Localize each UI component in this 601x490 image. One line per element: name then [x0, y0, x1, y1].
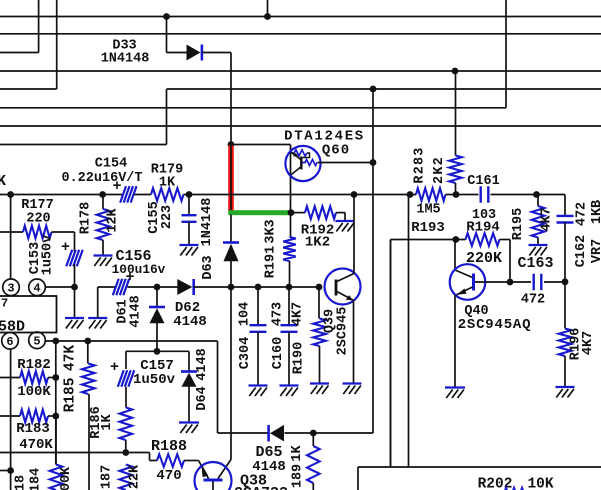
capacitor C157 — [118, 370, 134, 387]
svg-text:C304: C304 — [238, 337, 253, 369]
svg-text:4: 4 — [33, 282, 40, 296]
svg-text:187: 187 — [100, 465, 115, 489]
resistor R190 — [313, 319, 326, 347]
ground — [88, 318, 107, 329]
svg-text:1K: 1K — [159, 176, 176, 191]
svg-text:470: 470 — [156, 468, 181, 484]
wire — [344, 213, 346, 221]
wire row351 — [126, 350, 189, 352]
capacitor C160 — [281, 325, 298, 332]
ground C160 — [280, 386, 299, 397]
junction — [186, 191, 193, 198]
wire pin6 column — [10, 349, 12, 490]
resistor R185 — [82, 364, 95, 395]
wire — [312, 433, 314, 446]
wire — [390, 240, 392, 468]
resistor R177 — [23, 226, 52, 239]
junction — [452, 236, 459, 243]
box left — [357, 467, 359, 490]
svg-text:473: 473 — [271, 302, 286, 326]
wire — [184, 194, 417, 196]
resistor R184 — [50, 465, 63, 490]
wire row341 — [46, 340, 218, 342]
wire — [288, 287, 290, 325]
svg-text:4K7: 4K7 — [581, 331, 596, 355]
wire — [188, 195, 190, 216]
capacitor C162 — [557, 216, 574, 223]
junction — [533, 191, 540, 198]
wire — [564, 195, 566, 217]
wire — [166, 17, 168, 53]
wire — [184, 460, 199, 462]
wire — [38, 0, 40, 53]
junction — [7, 191, 14, 198]
wire — [267, 0, 269, 17]
svg-text:10K: 10K — [527, 477, 553, 490]
wire Q40 emitter — [454, 295, 456, 387]
wire Q39 emitter — [353, 300, 355, 384]
junction — [370, 86, 377, 93]
wire — [510, 281, 531, 283]
capacitor C153 — [66, 250, 82, 266]
wire — [98, 286, 116, 288]
wire — [48, 415, 56, 417]
wire Q38 collector — [230, 433, 232, 460]
pin 5 — [29, 332, 46, 349]
svg-text:1u50v: 1u50v — [133, 372, 176, 388]
wire R185 bottom — [88, 394, 90, 490]
wire — [217, 341, 219, 433]
resistor R191 — [283, 237, 296, 261]
junction node A — [228, 141, 235, 148]
wire — [491, 194, 566, 196]
svg-text:C162: C162 — [574, 235, 589, 267]
svg-text:5: 5 — [33, 335, 40, 349]
svg-text:4148: 4148 — [252, 459, 286, 475]
ground — [94, 256, 113, 267]
wire — [0, 415, 20, 417]
ground R190 — [310, 384, 329, 395]
capacitor C154 — [120, 186, 136, 203]
svg-text:K: K — [0, 173, 6, 190]
junction — [452, 68, 459, 75]
svg-text:VR7: VR7 — [590, 239, 601, 263]
wire — [288, 332, 290, 386]
svg-text:7: 7 — [1, 297, 8, 311]
wire — [156, 323, 158, 352]
junction — [228, 284, 235, 291]
wire Q60 to node — [318, 162, 374, 164]
resistor R194 — [466, 233, 500, 246]
transistor Q60 internals — [291, 150, 318, 175]
svg-text:R193: R193 — [411, 220, 445, 236]
wire — [230, 261, 232, 433]
svg-text:1K: 1K — [290, 445, 305, 462]
svg-text:R191: R191 — [264, 246, 279, 278]
svg-text:R182: R182 — [17, 357, 51, 373]
svg-text:184: 184 — [29, 468, 44, 490]
pin 3 — [3, 279, 20, 296]
wire — [125, 440, 127, 453]
resistor R283 — [449, 156, 462, 184]
junction — [507, 279, 514, 286]
diode D62 — [177, 279, 193, 295]
svg-text:C163: C163 — [517, 255, 553, 272]
wire — [455, 71, 457, 156]
diode D61 — [149, 307, 165, 323]
svg-text:4K7: 4K7 — [540, 207, 555, 231]
svg-text:3K3: 3K3 — [264, 219, 279, 243]
capacitor C161 — [481, 186, 489, 203]
capacitor C155 — [182, 215, 197, 222]
pin 6 — [2, 333, 19, 350]
wire — [56, 0, 58, 89]
wire — [372, 89, 374, 433]
wire — [48, 377, 56, 379]
wire — [390, 240, 392, 468]
svg-text:0.22u16V/T: 0.22u16V/T — [61, 171, 142, 186]
junction — [7, 467, 14, 474]
wire — [230, 53, 232, 145]
wire Q39 collector — [353, 195, 355, 274]
svg-text:4148: 4148 — [129, 295, 144, 327]
svg-text:104: 104 — [238, 302, 253, 326]
svg-text:2SC945AQ: 2SC945AQ — [458, 317, 532, 333]
wire — [312, 483, 314, 490]
wire — [537, 238, 539, 246]
wire — [45, 286, 74, 288]
junction — [122, 449, 129, 456]
transistor Q40 — [450, 264, 486, 300]
wire bus6 — [0, 125, 601, 127]
svg-text:100u16v: 100u16v — [112, 262, 166, 277]
capacitor C163 — [534, 274, 542, 291]
junction — [154, 348, 161, 355]
wire — [150, 460, 158, 462]
svg-text:C161: C161 — [467, 174, 499, 189]
wire — [97, 287, 99, 318]
svg-text:R283: R283 — [413, 146, 428, 183]
resistor R183 — [20, 410, 48, 423]
svg-text:1K2: 1K2 — [305, 235, 330, 251]
svg-text:100K: 100K — [17, 384, 51, 400]
svg-text:223: 223 — [160, 205, 175, 229]
wire — [55, 416, 57, 465]
wire — [290, 145, 292, 213]
svg-text:4148: 4148 — [195, 348, 210, 380]
wire — [0, 231, 23, 233]
svg-text:4148: 4148 — [173, 314, 207, 330]
wire — [87, 341, 89, 364]
wire bus1 — [0, 16, 601, 18]
svg-text:2SA733: 2SA733 — [234, 485, 288, 490]
junction — [255, 284, 262, 291]
wire — [0, 144, 167, 146]
highlight red trace — [228, 146, 234, 212]
svg-text:+: + — [112, 178, 121, 195]
wire — [125, 387, 127, 408]
svg-text:Q60: Q60 — [322, 143, 350, 159]
svg-text:+: + — [61, 239, 70, 256]
wire — [231, 144, 291, 146]
ground — [180, 245, 199, 256]
resistor R179 — [151, 188, 184, 201]
junction — [286, 284, 293, 291]
transistor Q60 circle — [285, 146, 320, 181]
junction — [407, 191, 414, 198]
wire — [319, 346, 321, 384]
wire — [156, 287, 158, 306]
ground R196 — [556, 387, 575, 398]
wire — [188, 386, 190, 422]
wire — [336, 212, 345, 214]
wire — [149, 453, 151, 461]
wire bus3 — [0, 70, 601, 72]
svg-text:R190: R190 — [292, 342, 307, 374]
svg-text:R178: R178 — [79, 202, 94, 234]
resistor R187 — [120, 465, 133, 490]
wire — [505, 0, 507, 108]
junction — [52, 374, 59, 381]
IC box 4558D — [0, 296, 57, 333]
box top — [358, 466, 601, 468]
diode D33 — [187, 45, 202, 61]
svg-text:472: 472 — [575, 202, 590, 226]
junction — [71, 284, 78, 291]
wire — [74, 287, 76, 318]
resistor R193 — [416, 188, 446, 201]
wire Q40 collector — [454, 240, 456, 271]
svg-text:00K: 00K — [59, 466, 74, 490]
capacitor C304 — [250, 325, 267, 332]
junction — [99, 191, 106, 198]
wire — [0, 470, 11, 472]
wire — [455, 183, 457, 195]
wire — [135, 194, 152, 196]
svg-text:R188: R188 — [151, 438, 187, 455]
wire — [166, 89, 168, 145]
svg-text:1N4148: 1N4148 — [101, 52, 150, 67]
ground — [65, 318, 84, 329]
highlight green trace — [228, 210, 291, 215]
transistor Q38 — [195, 460, 232, 490]
wire main node line — [0, 194, 122, 196]
wire — [289, 261, 291, 287]
svg-text:189: 189 — [291, 464, 306, 488]
svg-text:2K2: 2K2 — [432, 156, 447, 184]
resistor R178 — [97, 209, 110, 240]
wire — [500, 239, 511, 241]
wire — [564, 223, 566, 282]
svg-text:1M5: 1M5 — [416, 203, 440, 218]
junction — [52, 413, 59, 420]
wire — [291, 212, 305, 214]
svg-text:R183: R183 — [16, 421, 50, 437]
svg-text:+: + — [110, 359, 119, 376]
wire R194 row — [391, 239, 466, 241]
wire — [0, 52, 39, 54]
wire — [167, 52, 188, 54]
svg-text:1u50v: 1u50v — [41, 235, 56, 276]
capacitor C156 — [113, 279, 129, 295]
junction — [154, 284, 161, 291]
wire Q40 base — [475, 281, 510, 283]
wire bus4 left segment — [0, 88, 57, 90]
wire — [446, 194, 479, 196]
wire — [218, 432, 269, 434]
diode D63 — [223, 243, 239, 262]
svg-text:R195: R195 — [511, 208, 526, 240]
svg-text:4K7: 4K7 — [291, 302, 306, 326]
wire — [537, 195, 539, 207]
resistor R195 — [532, 206, 545, 238]
junction — [351, 191, 358, 198]
svg-text:R194: R194 — [466, 220, 500, 236]
svg-text:1N4148: 1N4148 — [200, 198, 215, 247]
svg-text:22K: 22K — [128, 464, 143, 489]
wire — [128, 286, 180, 288]
svg-text:2SC945: 2SC945 — [336, 307, 351, 356]
wire bus4 right segment — [167, 88, 601, 90]
svg-text:1KB: 1KB — [590, 200, 601, 224]
svg-text:C154: C154 — [95, 157, 127, 172]
wire — [188, 222, 190, 245]
junction — [453, 191, 460, 198]
wire — [74, 264, 76, 287]
pin 4 — [29, 279, 46, 296]
ground D64 — [179, 423, 199, 434]
svg-text:R202: R202 — [478, 477, 513, 490]
wire — [318, 287, 320, 319]
svg-text:472: 472 — [521, 293, 545, 308]
ground R192 — [336, 221, 355, 232]
junction — [84, 338, 91, 345]
wire — [230, 215, 232, 242]
wire — [55, 341, 57, 465]
wire — [102, 195, 104, 210]
junction green node — [288, 209, 295, 216]
wire — [0, 377, 20, 379]
wire rail452 — [0, 452, 150, 454]
wire — [188, 351, 190, 370]
wire bus5 — [0, 107, 506, 109]
junction — [310, 430, 317, 437]
resistor R202 — [504, 488, 528, 490]
wire — [408, 195, 410, 468]
wire — [52, 231, 75, 233]
svg-text:470K: 470K — [19, 437, 53, 453]
junction — [562, 278, 569, 285]
junction — [316, 284, 323, 291]
ground C304 — [249, 386, 268, 397]
svg-text:D63: D63 — [201, 255, 216, 279]
wire — [509, 240, 511, 283]
wire pin3 — [10, 195, 12, 280]
resistor R189 — [307, 446, 320, 483]
ground R195 — [529, 245, 548, 256]
junction — [370, 159, 377, 166]
wire — [125, 351, 127, 369]
resistor R192 — [305, 206, 336, 219]
svg-text:D64: D64 — [195, 386, 210, 410]
svg-text:R185: R185 — [63, 378, 79, 413]
diode D65 — [269, 425, 284, 442]
resistor R188 — [157, 454, 184, 467]
wire bus2 — [0, 33, 601, 35]
wire — [290, 215, 292, 237]
svg-text:C160: C160 — [271, 337, 286, 369]
diode D64 — [181, 372, 197, 387]
wire — [202, 52, 231, 54]
junction node D33 anode — [163, 13, 170, 20]
junction — [52, 338, 59, 345]
ground Q39 — [343, 384, 362, 395]
wire under red trace — [230, 146, 232, 211]
svg-text:12K: 12K — [106, 207, 121, 232]
wire — [257, 287, 259, 325]
wire — [102, 240, 104, 255]
wire — [194, 286, 319, 288]
svg-text:18: 18 — [14, 475, 29, 490]
ground Q40 — [445, 388, 465, 399]
junction — [264, 13, 271, 20]
transistor Q39 — [325, 269, 361, 305]
wire — [285, 432, 374, 434]
wire — [544, 281, 565, 283]
wire — [564, 282, 566, 329]
resistor R196 — [559, 329, 572, 357]
wire — [74, 232, 76, 252]
resistor R182 — [20, 371, 48, 384]
svg-text:220: 220 — [26, 212, 50, 227]
svg-text:3: 3 — [7, 282, 14, 296]
wire — [564, 356, 566, 387]
svg-text:6: 6 — [6, 335, 13, 349]
resistor R186 — [120, 408, 133, 441]
wire — [257, 332, 259, 386]
svg-text:47K: 47K — [63, 345, 79, 371]
svg-text:1K: 1K — [100, 414, 115, 431]
